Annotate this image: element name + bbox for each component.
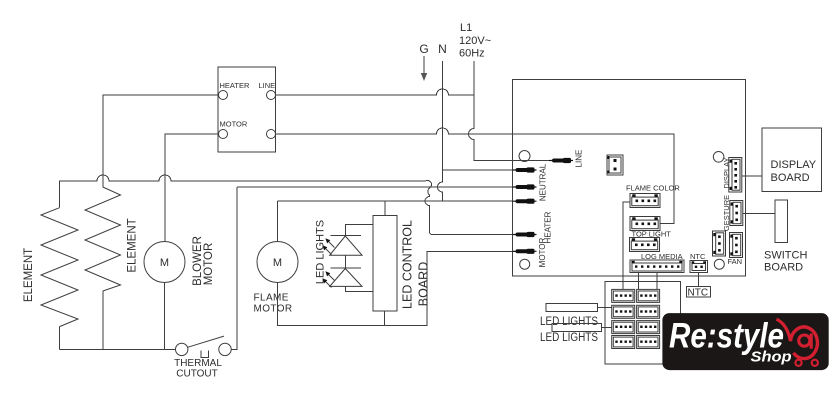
wire relay aux to flame color (hop over N)	[276, 128, 675, 223]
svg-text:M: M	[273, 257, 282, 269]
wire led chain mid	[344, 255, 346, 268]
wire bottom bus	[60, 348, 176, 350]
svg-text:MOTOR: MOTOR	[538, 237, 547, 267]
resistor element 2	[85, 187, 121, 291]
svg-text:THERMAL: THERMAL	[174, 358, 222, 369]
small 2-pin connector J1	[607, 155, 623, 175]
switch board U4	[775, 200, 788, 243]
bank connector r1c1	[612, 289, 635, 302]
NEUTRAL terminal spade 1	[513, 167, 537, 172]
bank connector r4c1	[612, 336, 635, 349]
mounting hole	[714, 259, 724, 269]
wire element1 bottom	[59, 327, 61, 350]
svg-text:N: N	[438, 42, 447, 56]
wire led chain top	[345, 225, 373, 236]
bank connector r2c1	[612, 305, 635, 318]
wire gesture conn to switch board	[743, 213, 775, 215]
LINE terminal spade	[549, 158, 573, 163]
NTC sensor box	[687, 286, 711, 296]
bank connector r3c2	[637, 321, 660, 334]
wire led chain bottom	[345, 286, 373, 291]
MOTOR terminal spade	[513, 249, 537, 254]
wire flame/led neutral to board	[278, 200, 513, 202]
svg-text:FAN: FAN	[728, 257, 743, 266]
connector log media 8-pin	[630, 260, 684, 273]
mounting hole	[713, 152, 724, 163]
Re:style Shop logo	[662, 313, 828, 370]
thermal cutout switch	[174, 336, 231, 379]
svg-text:M: M	[160, 257, 169, 269]
svg-text:ELEMENT: ELEMENT	[23, 248, 35, 302]
svg-text:LED CONTROL: LED CONTROL	[401, 220, 415, 309]
wire V1 to heater terminal	[425, 188, 516, 235]
bank connector r3c1	[612, 321, 635, 334]
svg-text:BOARD: BOARD	[771, 172, 810, 184]
connector NTC	[690, 261, 708, 273]
svg-text:MOTOR: MOTOR	[254, 304, 293, 315]
mounting hole	[519, 151, 530, 162]
FAN connector 1	[713, 231, 726, 256]
svg-text:MOTOR: MOTOR	[203, 243, 215, 286]
wire NTC conn to NTC sensor	[698, 273, 700, 287]
wire flame motor bottom to board MOTOR	[278, 251, 517, 325]
LED D1	[322, 236, 362, 256]
led cable 2	[552, 324, 602, 332]
wire W1 heater bus	[60, 175, 432, 208]
svg-text:LED LIGHTS: LED LIGHTS	[315, 220, 327, 284]
main control board U1	[513, 80, 746, 277]
svg-text:LINE: LINE	[259, 81, 276, 90]
wire flame color 1 stub down to bank	[623, 202, 630, 289]
wire relay LINE to L1 (hop over N)	[276, 89, 475, 95]
svg-text:G: G	[419, 42, 428, 56]
cart @ symbol	[777, 319, 818, 366]
motor M1 blower	[144, 242, 185, 283]
display board U3	[762, 128, 822, 192]
LED D2	[322, 268, 362, 288]
connector flame color 2	[630, 217, 660, 231]
wire log media to bank 1	[637, 273, 639, 290]
svg-text:BOARD: BOARD	[764, 262, 803, 274]
relay K1	[218, 67, 276, 152]
svg-text:DISPLAY: DISPLAY	[722, 157, 731, 188]
svg-text:BOARD: BOARD	[417, 262, 431, 306]
svg-text:LED LIGHTS: LED LIGHTS	[540, 316, 598, 328]
svg-text:NTC: NTC	[690, 252, 706, 261]
svg-text:SWITCH: SWITCH	[764, 250, 807, 262]
NEUTRAL terminal spade 2	[513, 184, 537, 189]
svg-text:LINE: LINE	[575, 150, 584, 168]
wire flame motor top lead	[277, 201, 279, 241]
bank connector r2c2	[637, 305, 660, 318]
wire N to NEUTRAL1	[443, 169, 513, 171]
bank box	[605, 281, 680, 364]
svg-text:60Hz: 60Hz	[459, 48, 485, 60]
svg-text:GESTURE: GESTURE	[722, 195, 731, 231]
ground arrow	[423, 56, 425, 74]
wire element2 bottom	[102, 291, 104, 349]
svg-text:LED LIGHTS: LED LIGHTS	[540, 332, 598, 344]
GESTURE connector	[730, 201, 743, 226]
wire cutout to W2 riser	[231, 187, 237, 349]
bank connector r1c2	[637, 289, 660, 302]
connector flame color 1	[630, 194, 660, 208]
wire led board top riser	[384, 201, 386, 215]
svg-text:FLAME COLOR: FLAME COLOR	[626, 184, 680, 193]
motor M2 flame	[257, 242, 298, 283]
NEUTRAL terminal spade 3	[513, 199, 537, 204]
svg-text:DISPLAY: DISPLAY	[771, 159, 817, 171]
resistor element 1	[41, 208, 78, 327]
wire relay HEATER to element 2	[103, 95, 219, 187]
svg-text:120V~: 120V~	[459, 35, 491, 47]
wire log media to bank 2	[656, 273, 658, 290]
wire N vertical	[438, 61, 443, 201]
bank connector r4c2	[637, 336, 660, 349]
wire blower bottom	[164, 283, 166, 350]
svg-text:Shop: Shop	[751, 349, 792, 366]
FAN connector 2	[730, 233, 743, 258]
svg-text:MOTOR: MOTOR	[220, 120, 248, 129]
wire led board bottom riser	[384, 311, 386, 325]
svg-text:FLAME: FLAME	[254, 293, 289, 304]
svg-text:NTC: NTC	[688, 288, 709, 299]
connector top light	[630, 238, 660, 252]
svg-text:L1: L1	[460, 22, 472, 34]
led cable 1	[546, 304, 598, 312]
DISPLAY connector	[729, 158, 742, 193]
LED control board U2	[373, 215, 397, 311]
svg-text:HEATER: HEATER	[220, 81, 250, 90]
HEATER terminal spade	[513, 232, 537, 237]
svg-text:NEUTRAL: NEUTRAL	[539, 163, 548, 201]
svg-text:ELEMENT: ELEMENT	[127, 218, 139, 272]
wire relay MOTOR to blower motor	[165, 134, 219, 242]
svg-text:CUTOUT: CUTOUT	[176, 369, 217, 380]
wire display conn to display board	[742, 175, 762, 177]
wire W2 neutral bus to board	[237, 186, 513, 188]
wire L1 vertical with hop over y134 wire	[469, 61, 553, 161]
mounting hole	[520, 259, 530, 269]
